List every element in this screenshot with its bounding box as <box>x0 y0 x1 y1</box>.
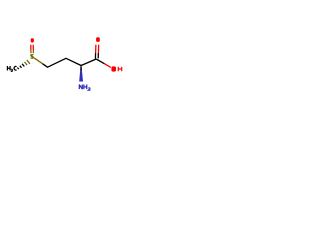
atom O3 hydroxyl label OH <box>111 66 121 71</box>
double bond C5=O2 (carbon half) <box>95 53 98 59</box>
chain bonds S1-C2, C2-C3, C3-C4, C4-C5 (carbon) <box>43 58 97 67</box>
bond C5-O3 (carbon half) <box>96 59 104 64</box>
bond S1-C2 (sulfur half) <box>34 58 43 64</box>
double bond S=O (sulfur half) <box>31 50 34 53</box>
atom C1 methyl label H3C <box>7 66 16 72</box>
solid wedge bond C4-N1 (nitrogen half) <box>79 71 83 82</box>
atom S1 (sulfoxide sulfur) <box>31 55 33 58</box>
double bond C5=O2 (red half) <box>96 45 99 53</box>
atom O1 (sulfoxide oxygen) <box>31 38 34 42</box>
hashed wedge bond C1-S1 (stereo) <box>17 60 30 69</box>
double bond S=O (red half) <box>31 45 34 50</box>
bond C5-O3 (oxygen half) <box>105 64 111 68</box>
solid wedge bond C4-N1 (carbon half) <box>80 66 82 71</box>
atom N1 amino label NH2 <box>79 85 90 91</box>
atom O2 (carbonyl oxygen) <box>96 37 100 42</box>
